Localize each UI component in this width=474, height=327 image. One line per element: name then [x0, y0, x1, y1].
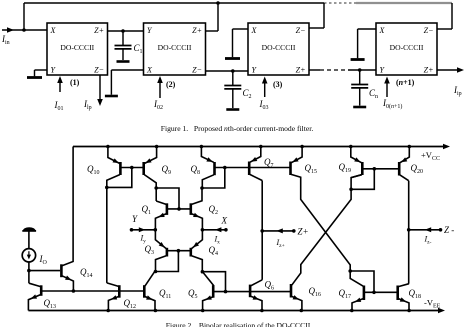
- svg-text:Figure 2. Bipolar realisatio: Figure 2. Bipolar realisation of the DO-…: [166, 321, 311, 327]
- svg-text:Z+: Z+: [192, 26, 202, 35]
- svg-text:Z+: Z+: [424, 66, 434, 75]
- svg-text:X: X: [221, 216, 228, 226]
- svg-text:(3): (3): [273, 80, 283, 89]
- svg-text:(2): (2): [166, 80, 176, 89]
- svg-text:Z+: Z+: [296, 66, 306, 75]
- svg-text:Z−: Z−: [424, 26, 434, 35]
- svg-text:Z+: Z+: [94, 26, 104, 35]
- svg-text:(n+1): (n+1): [396, 78, 415, 87]
- svg-text:DO-CCCII: DO-CCCII: [390, 43, 424, 52]
- svg-text:Z+: Z+: [298, 227, 309, 237]
- svg-text:Z−: Z−: [192, 66, 202, 75]
- svg-text:DO-CCCII: DO-CCCII: [262, 43, 296, 52]
- svg-text:(1): (1): [70, 78, 80, 87]
- svg-text:Figure 1. Proposed nth-order: Figure 1. Proposed nth-order current-mod…: [161, 124, 314, 133]
- svg-text:Z−: Z−: [296, 26, 306, 35]
- svg-text:Z−: Z−: [94, 66, 104, 75]
- svg-text:DO-CCCII: DO-CCCII: [158, 43, 192, 52]
- svg-text:DO-CCCII: DO-CCCII: [60, 43, 94, 52]
- svg-text:Z -: Z -: [444, 225, 454, 235]
